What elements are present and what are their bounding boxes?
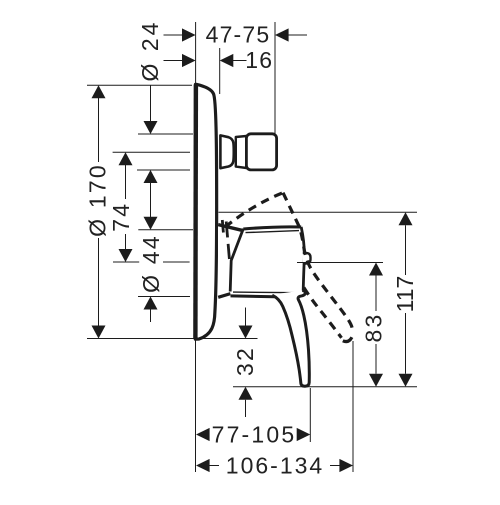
dashed lever tip arc (343, 337, 352, 341)
escutcheon plate (side view) (195, 84, 216, 339)
dashed lever lower edge (304, 288, 342, 338)
dimension 74 (knob center to handle center) (119, 152, 133, 262)
svg-text:74: 74 (108, 202, 134, 232)
extension line knob center (113, 151, 190, 153)
extension line knob face (top right) (274, 22, 276, 134)
dimension 47-75 (164, 28, 308, 41)
extension line 16 (top) (219, 48, 221, 94)
diverter knob: main knob (246, 134, 276, 170)
diverter knob: ring section (236, 136, 247, 168)
svg-text:117: 117 (392, 276, 418, 313)
extension line dashed lever tip (352, 341, 354, 472)
dimension Ø44 (handle escutcheon) (144, 205, 158, 322)
extension line wall/plate-front (top) (195, 22, 197, 84)
dashed base edge near plate (226, 222, 229, 260)
handle body (230, 227, 304, 297)
dimension 106-134 (196, 459, 353, 472)
dashed rotated base stub at plate (222, 220, 223, 233)
svg-text:83: 83 (361, 313, 387, 343)
dimension Ø24 (vertical, knob) (144, 85, 158, 217)
extension line lever tip (309, 388, 311, 442)
extension line handle center right (83) (297, 262, 383, 264)
svg-text:16: 16 (245, 47, 273, 73)
extension line handle center left (113, 261, 139, 263)
svg-text:77-105: 77-105 (212, 422, 297, 448)
svg-text:Ø 170: Ø 170 (84, 163, 110, 237)
dimension 32 (239, 308, 253, 418)
lever (272, 291, 309, 387)
svg-text:Ø 44: Ø 44 (138, 234, 164, 293)
handle base (escutcheon of lever) (218, 225, 244, 298)
extension line base bottom (138, 296, 190, 298)
dashed handle rotated: right edge and lever upper edge (283, 193, 352, 330)
dimension Ø170 (87, 85, 258, 338)
extension line wall (bottom) (195, 340, 197, 472)
svg-text:106-134: 106-134 (226, 453, 324, 479)
dimension 83 (369, 263, 383, 387)
extension line bottom of lever (233, 386, 417, 388)
svg-text:32: 32 (232, 346, 258, 376)
svg-text:47-75: 47-75 (206, 22, 271, 48)
dimension 77-105 (196, 428, 310, 441)
handle button tab (303, 253, 311, 264)
extension line knob bottom (137, 169, 190, 171)
dashed handle rotated: top edge (225, 193, 283, 227)
svg-text:Ø 24: Ø 24 (137, 20, 163, 82)
dimension 16 (164, 54, 247, 67)
extension line knob top (138, 133, 193, 135)
extension line 117 top (219, 211, 418, 213)
extension line base top (138, 229, 193, 231)
diverter knob: cone section (220, 135, 233, 168)
dimension 117 (399, 212, 413, 386)
